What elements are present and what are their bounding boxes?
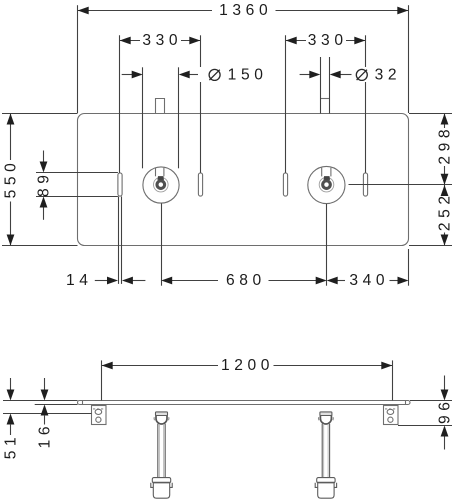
svg-text:330: 330 [142,32,182,49]
svg-text:89: 89 [36,170,53,197]
svg-text:330: 330 [308,32,348,49]
svg-text:1360: 1360 [219,2,272,19]
svg-text:51: 51 [3,433,20,460]
svg-text:252: 252 [437,191,454,231]
svg-text:32: 32 [375,66,402,83]
svg-text:96: 96 [437,397,454,424]
svg-text:1200: 1200 [221,357,274,374]
svg-text:16: 16 [37,422,54,449]
svg-text:680: 680 [226,272,266,289]
svg-text:550: 550 [3,159,20,199]
svg-text:14: 14 [66,272,93,289]
svg-text:340: 340 [349,272,389,289]
svg-text:298: 298 [437,125,454,165]
svg-text:150: 150 [228,66,268,83]
